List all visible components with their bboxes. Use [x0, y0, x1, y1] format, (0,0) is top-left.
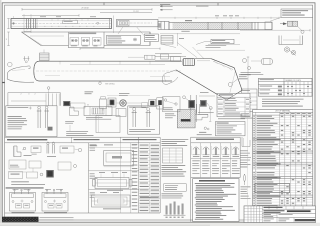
svg-text:0: 0 [28, 94, 29, 96]
svg-text:7: 7 [27, 30, 28, 32]
svg-text:2: 2 [35, 94, 36, 96]
svg-text:2: 2 [21, 94, 22, 96]
svg-text:3: 3 [6, 39, 7, 41]
svg-text:SEE DETAIL: SEE DETAIL [105, 83, 115, 86]
svg-text:15 1/2: 15 1/2 [133, 11, 138, 13]
svg-text:29 13/32: 29 13/32 [81, 8, 88, 10]
